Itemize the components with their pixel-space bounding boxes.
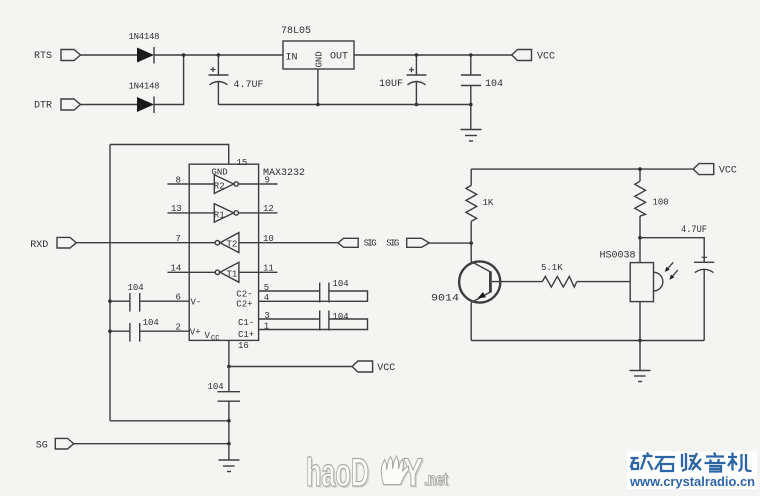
svg-text:V+: V+ xyxy=(190,328,201,338)
svg-text:5.1K: 5.1K xyxy=(541,263,563,273)
pin 14 wire xyxy=(168,271,216,273)
wire D2 cathode up to RTS line xyxy=(154,55,184,105)
label C1- xyxy=(238,318,254,328)
junction dot gnd rail xyxy=(227,419,231,423)
wire top rail right xyxy=(471,168,693,170)
svg-text:14: 14 xyxy=(171,264,182,274)
pin label GND (rotated) xyxy=(315,51,325,67)
pin 2 wire V+ xyxy=(140,330,190,332)
svg-text:IN: IN xyxy=(286,53,298,64)
pin 12 wire xyxy=(238,212,277,214)
svg-text:C2-: C2- xyxy=(236,290,252,300)
capacitor C6 104 left upper xyxy=(108,293,140,312)
wire left vertical rail xyxy=(109,145,111,421)
node RTS label xyxy=(34,51,52,62)
wire RTS to D1 xyxy=(81,54,138,56)
IR arrow 2 xyxy=(669,270,677,280)
pin 14 label xyxy=(171,264,182,274)
pin 6 label xyxy=(176,293,181,303)
label T2 xyxy=(227,240,238,250)
diode D1 1N4148 xyxy=(137,47,154,64)
label 9014 xyxy=(431,294,459,305)
capacitor C3 104 xyxy=(461,53,481,129)
label 5.1K xyxy=(541,263,563,273)
svg-text:8: 8 xyxy=(176,176,181,186)
svg-text:6: 6 xyxy=(176,293,181,303)
svg-text:www.crystalradio.cn: www.crystalradio.cn xyxy=(629,475,755,489)
svg-text:VCC: VCC xyxy=(377,363,395,374)
op-amp U1 MAX3232 box xyxy=(189,164,258,340)
wire to C9 xyxy=(640,238,704,263)
resistor R3 5.1K xyxy=(542,276,577,287)
svg-text:RXD: RXD xyxy=(30,240,48,251)
label 104 (C6) xyxy=(128,283,144,293)
svg-text:R1: R1 xyxy=(214,211,225,221)
label VCC top xyxy=(537,52,555,63)
svg-text:haoD: haoD xyxy=(306,451,369,495)
svg-text:5: 5 xyxy=(264,283,269,293)
pin 12 label xyxy=(263,204,274,214)
pin 5 wire C2- xyxy=(259,290,320,292)
wire HS0038 top pin xyxy=(639,238,641,263)
pin 16 wire down xyxy=(228,340,230,366)
pin label OUT xyxy=(330,52,348,63)
wire OUT to VCC xyxy=(354,54,512,56)
label 104 (C5) xyxy=(333,312,349,322)
junction dot A xyxy=(182,53,186,57)
label R2 xyxy=(214,182,225,192)
svg-text:78L05: 78L05 xyxy=(281,26,311,37)
port SIG in flag xyxy=(407,238,430,247)
pin label IN xyxy=(286,53,298,64)
capacitor C4 104 xyxy=(320,283,329,303)
buffer T1 xyxy=(215,262,239,282)
svg-text:104: 104 xyxy=(333,279,349,289)
label 100 xyxy=(653,198,669,208)
svg-text:1K: 1K xyxy=(483,198,494,208)
pin 10 label xyxy=(263,234,274,244)
wire SG to ground node xyxy=(74,443,229,445)
ground G1 xyxy=(461,130,482,142)
wire junction to regulator IN xyxy=(184,54,283,56)
wire 5.1K to HS0038 xyxy=(577,281,630,283)
watermark chinese 石 xyxy=(655,457,675,471)
regulator U2 78L05 box xyxy=(283,41,354,69)
label MAX3232 xyxy=(263,168,305,179)
svg-text:OUT: OUT xyxy=(330,52,348,63)
port RTS flag xyxy=(61,50,81,61)
svg-text:GND: GND xyxy=(315,51,325,67)
IR receiver U3 HS0038 xyxy=(630,263,663,302)
pin 7 wire from RXD xyxy=(76,242,215,244)
label 78L05 xyxy=(281,26,311,37)
pin 11 label xyxy=(263,264,274,274)
port VCC flag right xyxy=(693,164,714,175)
svg-text:104: 104 xyxy=(485,79,503,90)
svg-text:SG: SG xyxy=(36,441,48,452)
svg-text:DTR: DTR xyxy=(34,101,52,112)
label C2- xyxy=(236,290,252,300)
diode D2 1N4148 xyxy=(137,97,154,114)
watermark crystalradio box xyxy=(627,452,757,490)
label 104 (C7) xyxy=(143,318,159,328)
ground G2 xyxy=(219,444,240,472)
capacitor C2 10UF electrolytic xyxy=(407,53,427,106)
svg-text:4.7UF: 4.7UF xyxy=(681,225,707,236)
svg-text:11: 11 xyxy=(263,264,274,274)
svg-text:1N4148: 1N4148 xyxy=(129,32,160,42)
label 104 (C4) xyxy=(333,279,349,289)
svg-text:9: 9 xyxy=(265,176,270,186)
wire bottom rail right xyxy=(471,340,704,342)
pin 5 label xyxy=(264,283,269,293)
watermark chinese 收 xyxy=(682,453,701,471)
wire D1 cathode to junction xyxy=(154,54,184,56)
label Vcc chip xyxy=(205,331,220,343)
svg-text:R2: R2 xyxy=(214,182,225,192)
pin 13 wire xyxy=(168,212,215,214)
watermark hand glyph xyxy=(381,456,409,486)
svg-text:10: 10 xyxy=(263,234,274,244)
label V+ xyxy=(190,328,201,338)
pin 7 label xyxy=(176,234,181,244)
pin 10 wire to SIG xyxy=(239,242,338,244)
pin 8 label xyxy=(176,176,181,186)
label 1N4148 (D1) xyxy=(129,32,160,42)
svg-text:15: 15 xyxy=(237,158,248,168)
wire gnd loop top xyxy=(110,145,229,165)
buffer R1 xyxy=(214,204,238,222)
buffer T2 xyxy=(215,233,239,253)
pin 4 wire C2+ loop xyxy=(259,291,368,301)
svg-text:10UF: 10UF xyxy=(379,79,403,90)
svg-text:V: V xyxy=(205,331,211,341)
buffer R2 xyxy=(214,175,238,194)
pin 4 label xyxy=(264,293,269,303)
label 104 (C8) xyxy=(208,382,224,392)
svg-text:C1+: C1+ xyxy=(238,330,254,340)
svg-text:12: 12 xyxy=(263,204,274,214)
capacitor C8 104 decoupling xyxy=(218,367,241,444)
junction dot SG xyxy=(227,442,231,446)
resistor R2 100 xyxy=(635,169,646,238)
wire gnd rail to chip gnd xyxy=(110,420,229,422)
svg-text:100: 100 xyxy=(653,198,669,208)
svg-text:RTS: RTS xyxy=(34,51,52,62)
label 1K xyxy=(483,198,494,208)
svg-text:3: 3 xyxy=(264,311,269,321)
pin 9 wire xyxy=(238,183,277,185)
svg-text:C2+: C2+ xyxy=(236,300,252,310)
svg-text:4: 4 xyxy=(264,293,269,303)
pin 15 label xyxy=(237,158,248,168)
wire DTR to D2 xyxy=(81,104,138,106)
watermark chinese 矿 xyxy=(631,453,653,471)
capacitor C1 4.7UF electrolytic xyxy=(209,53,229,104)
svg-text:1N4148: 1N4148 xyxy=(129,82,160,92)
node DTR label xyxy=(34,101,52,112)
pin 3 label xyxy=(264,311,269,321)
label T1 xyxy=(227,270,238,280)
port SG flag xyxy=(55,438,73,449)
watermark chinese 机 xyxy=(728,453,752,472)
label V- xyxy=(191,298,202,308)
label SIG in xyxy=(386,239,399,249)
pin 1 wire C1+ loop xyxy=(259,319,368,330)
port DTR flag xyxy=(61,99,81,110)
svg-text:7: 7 xyxy=(176,234,181,244)
svg-text:104: 104 xyxy=(128,283,144,293)
svg-text:SIG: SIG xyxy=(364,239,377,249)
svg-text:1: 1 xyxy=(264,322,269,332)
capacitor C7 104 left lower xyxy=(108,323,140,342)
svg-text:C1-: C1- xyxy=(238,318,254,328)
svg-text:T1: T1 xyxy=(227,270,238,280)
RXD label xyxy=(30,240,48,251)
label SIG out xyxy=(364,239,377,249)
watermark haoDIY.net xyxy=(306,451,450,496)
label HS0038 xyxy=(600,251,636,262)
label C1+ xyxy=(238,330,254,340)
pin 16 label xyxy=(238,341,249,351)
ground G3 xyxy=(630,341,651,382)
label GND chip xyxy=(212,168,228,178)
wire GND pin down xyxy=(317,69,319,105)
svg-text:104: 104 xyxy=(333,312,349,322)
label 104 (C3) xyxy=(485,79,503,90)
port SIG out flag xyxy=(338,238,358,247)
capacitor C9 4.7UF electrolytic xyxy=(694,255,714,341)
capacitor C5 104 xyxy=(320,311,329,331)
svg-text:HS0038: HS0038 xyxy=(600,251,636,262)
svg-text:SIG: SIG xyxy=(386,239,399,249)
svg-text:VCC: VCC xyxy=(537,52,555,63)
port VCC flag mid xyxy=(352,361,373,372)
svg-text:4.7UF: 4.7UF xyxy=(234,80,264,91)
svg-text:13: 13 xyxy=(171,204,182,214)
IR arrow 1 xyxy=(665,262,673,272)
pin 11 wire xyxy=(239,271,278,273)
svg-text:VCC: VCC xyxy=(719,166,737,177)
wire to VCC mid flag xyxy=(229,366,352,368)
junction dot VCC rail xyxy=(638,167,642,171)
label 4.7UF (C1) xyxy=(234,80,264,91)
label C2+ xyxy=(236,300,252,310)
svg-text:CC: CC xyxy=(211,335,219,343)
label 1N4148 (D2) xyxy=(129,82,160,92)
watermark chinese 音 xyxy=(705,453,726,472)
svg-text:V-: V- xyxy=(191,298,202,308)
label VCC mid xyxy=(377,363,395,374)
transistor Q1 9014 xyxy=(459,243,500,340)
label 4.7UF (C9) xyxy=(681,225,707,236)
port RXD flag xyxy=(57,237,76,248)
junction dot pin16/VCC xyxy=(227,365,231,369)
pin 13 label xyxy=(171,204,182,214)
junction dot bottom rail xyxy=(638,339,642,343)
wire HS0038 bottom pin xyxy=(639,302,641,341)
svg-text:T2: T2 xyxy=(227,240,238,250)
svg-text:104: 104 xyxy=(208,382,224,392)
junction dot HS0038 top xyxy=(638,236,642,240)
pin 8 wire xyxy=(168,183,215,185)
port VCC flag top xyxy=(512,50,532,61)
label VCC right xyxy=(719,166,737,177)
svg-text:.net: .net xyxy=(424,470,449,489)
pin 1 label xyxy=(264,322,269,332)
pin 3 wire C1- xyxy=(259,318,320,320)
wire SIG to base node xyxy=(429,242,471,244)
junction dot SIG node xyxy=(469,241,473,245)
junction dot GND pin xyxy=(316,103,320,107)
svg-text:2: 2 xyxy=(176,323,181,333)
label 10UF (C2) xyxy=(379,79,403,90)
wire base to 5.1K xyxy=(492,281,543,283)
pin 6 wire V- xyxy=(140,300,190,302)
svg-text:16: 16 xyxy=(238,341,249,351)
SG label xyxy=(36,441,48,452)
label R1 xyxy=(214,211,225,221)
svg-text:9014: 9014 xyxy=(431,294,459,305)
pin 2 label xyxy=(176,323,181,333)
svg-text:104: 104 xyxy=(143,318,159,328)
pin 9 label xyxy=(265,176,270,186)
wire bottom rail top section xyxy=(218,104,470,106)
resistor R1 1K xyxy=(466,169,477,243)
